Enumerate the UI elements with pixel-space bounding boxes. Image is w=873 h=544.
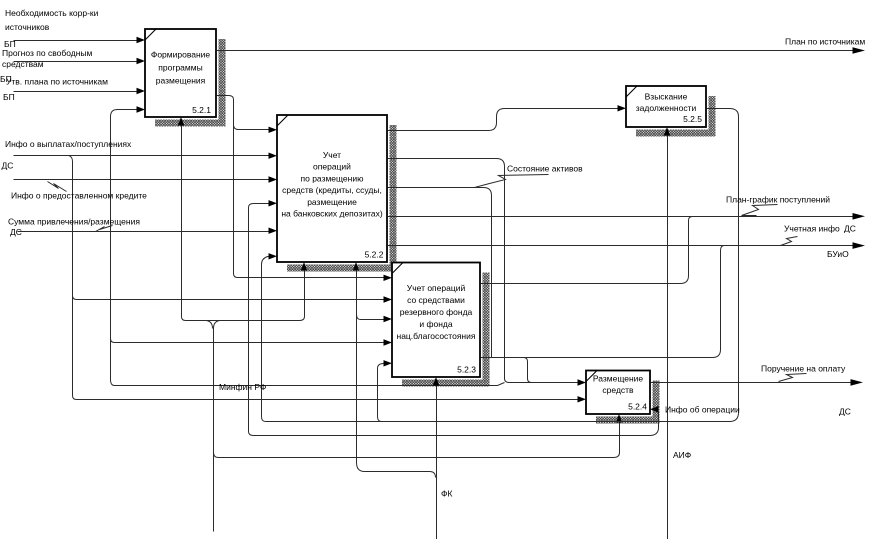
shadow of activity box 5.2.4 bbox=[596, 381, 660, 424]
svg-text:со средствами: со средствами bbox=[407, 295, 465, 305]
wire: U2 out3 (Состояние активов) -> down x=491.5 merge into y=357 line bbox=[388, 188, 492, 358]
activity box U3 "Учет операций со средствами резервного фонда" (5.2.3) bbox=[392, 263, 480, 378]
svg-text:Формирование: Формирование bbox=[151, 50, 211, 60]
svg-text:ДС: ДС bbox=[839, 407, 851, 417]
svg-text:средств (кредиты, ссуды,: средств (кредиты, ссуды, bbox=[282, 185, 382, 195]
activity box U4 "Размещение средств" (5.2.4) bbox=[586, 371, 650, 415]
svg-text:Поручение на оплату: Поручение на оплату bbox=[761, 364, 846, 374]
shadow of activity box 5.2.2 bbox=[287, 125, 397, 272]
wire: U5 output feedback -> right, down x=738, left y=421, up x=261 -> U2 in6 ; branch up x=377 -> U3 in5 bbox=[262, 109, 739, 422]
wire: АИФ bottom border -> U5 bottom input, vertical x=667 bbox=[667, 136, 669, 540]
svg-text:Прогноз по свободным: Прогноз по свободным bbox=[2, 48, 93, 58]
svg-text:размещение: размещение bbox=[307, 197, 357, 207]
branch x=72 down to U4 in2 line bbox=[69, 156, 578, 400]
svg-text:5.2.4: 5.2.4 bbox=[628, 402, 647, 412]
wire: U4 out -> Поручение на оплату (right border) bbox=[651, 382, 851, 384]
svg-text:Инфо об операции: Инфо об операции bbox=[665, 405, 740, 415]
svg-text:размещения: размещения bbox=[156, 76, 206, 86]
svg-text:Размещение: Размещение bbox=[593, 374, 644, 384]
svg-text:План-график поступлений: План-график поступлений bbox=[726, 195, 830, 205]
branch at (527,357) down to U4 in1 line bbox=[524, 358, 532, 383]
svg-text:БП: БП bbox=[3, 92, 15, 102]
wire: U3 out2 y=357 -> up x=720 merge into Учетная line; branch down x=527 to U4 in1 bbox=[481, 246, 725, 358]
activity box U1 "Формирование программы размещения" (5.2.1) bbox=[145, 29, 216, 117]
activity box U5 "Взыскание задолженности" (5.2.5) bbox=[626, 86, 706, 127]
wire: U2 out4 -> План-график поступлений (right border) bbox=[388, 216, 853, 218]
wire: Инфо о выплатах/поступлениях -> U2 in2, branch down at x=72 bbox=[14, 155, 269, 157]
svg-text:Учетная инфо: Учетная инфо bbox=[784, 224, 840, 234]
svg-text:Необходимость корр-ки: Необходимость корр-ки bbox=[5, 8, 99, 18]
svg-text:5.2.2: 5.2.2 bbox=[365, 250, 384, 260]
squiggle: Учетная инфо bbox=[781, 237, 798, 246]
shadow of activity box 5.2.5 bbox=[636, 96, 716, 137]
svg-text:нац.благосостояния: нац.благосостояния bbox=[397, 331, 476, 341]
svg-text:План по источникам: План по источникам bbox=[785, 37, 865, 47]
wire: riser x=248.5 -> U2 in4 ; lower end -> y=435.6 -> Инфо об операции into U4 right edge bbox=[249, 204, 659, 436]
branch at (233,129.5) -> U2 in1 bbox=[234, 125, 269, 130]
svg-text:ДС: ДС bbox=[844, 224, 856, 234]
svg-text:программы: программы bbox=[158, 63, 202, 73]
svg-text:средств: средств bbox=[602, 385, 634, 395]
branch at (377,421.3) -> U3 in5 bbox=[378, 364, 384, 422]
svg-text:источников: источников bbox=[5, 22, 50, 32]
wire: Инфо о предоставленном кредите -> U2 in3 bbox=[14, 179, 269, 181]
branch at (356,319) -> U3 in3 bbox=[357, 315, 384, 320]
svg-text:Учет операций: Учет операций bbox=[407, 283, 466, 293]
wire: Утв. плана по источникам -> U1 in3 bbox=[14, 91, 137, 93]
squiggle: Поручение на оплату bbox=[779, 374, 807, 382]
branch at (72,299.5) -> U3 in2 bbox=[73, 296, 384, 300]
activity box U2 "Учет операций по размещению средств" (5.2.2) bbox=[277, 115, 387, 262]
squiggle: План-график поступлений bbox=[742, 205, 778, 216]
wire: Необходимость корр-ки источников -> U1 in1 bbox=[14, 40, 137, 42]
svg-text:Минфин РФ: Минфин РФ bbox=[219, 382, 266, 392]
wire tree from bottom x=213: feeds U1 bottom, U2 bottom-1, U4 bottom bbox=[182, 126, 305, 321]
shadow of activity box 5.2.3 bbox=[402, 273, 490, 387]
svg-text:БУиО: БУиО bbox=[827, 249, 849, 259]
svg-text:ДС: ДС bbox=[2, 161, 14, 171]
svg-text:Инфо о предоставленном кредите: Инфо о предоставленном кредите bbox=[11, 191, 147, 201]
svg-text:ДС: ДС bbox=[10, 227, 22, 237]
wire: Сумма привлечения/размещения -> U2 in5 bbox=[18, 231, 269, 233]
wire: U1 out top -> План по источникам (right border) bbox=[217, 50, 853, 52]
svg-text:задолженности: задолженности bbox=[636, 103, 697, 113]
wire tree x=110 (Минфин РФ): up to U1 in4, branches to U3 in4 and U4 in1 bbox=[111, 110, 505, 386]
svg-text:Сумма привлечения/размещения: Сумма привлечения/размещения bbox=[8, 217, 140, 227]
svg-text:и фонда: и фонда bbox=[419, 319, 452, 329]
svg-text:5.2.3: 5.2.3 bbox=[457, 365, 476, 375]
svg-text:средствам: средствам bbox=[2, 59, 44, 69]
svg-text:Взыскание: Взыскание bbox=[645, 92, 688, 102]
svg-text:операций: операций bbox=[313, 162, 351, 172]
svg-text:ФК: ФК bbox=[441, 489, 452, 499]
squiggle: Сумма привлечения/размещения bbox=[96, 226, 113, 232]
wire: U3 out1 -> up x=688 merge into План-график line bbox=[481, 217, 693, 284]
wire: U2 out5 -> Учетная инфо (right border) bbox=[388, 245, 853, 247]
svg-text:5.2.5: 5.2.5 bbox=[683, 114, 702, 124]
wire: U2 out2 -> down x=504 -> merge into U4 in1 line bbox=[388, 159, 578, 383]
squiggle: Инфо о предоставленном кредите bbox=[48, 182, 67, 192]
svg-text:резервного фонда: резервного фонда bbox=[400, 307, 473, 317]
wire: U2 out1 -> U5 left input bbox=[388, 109, 618, 131]
wire: U1 right out -> down x=233 -> U2 in1 branch and U3 in1 bbox=[217, 96, 384, 278]
svg-text:Учет: Учет bbox=[323, 150, 341, 160]
svg-text:Состояние активов: Состояние активов bbox=[507, 164, 583, 174]
svg-text:АИФ: АИФ bbox=[673, 450, 691, 460]
branch at (213,457.3) -> U4 bottom arrow bbox=[214, 423, 620, 458]
wire: Прогноз по свободным средствам -> U1 in2 bbox=[14, 61, 137, 63]
svg-text:по размещению: по размещению bbox=[301, 173, 365, 183]
squiggle: Состояние активов bbox=[475, 175, 549, 188]
svg-text:Инфо о выплатах/поступлениях: Инфо о выплатах/поступлениях bbox=[5, 139, 132, 149]
wire: ФК bottom border up x=436 -> U3 bottom arrow; branch west y=471 -> up x=356 -> U2 bottom-2; branch at (356,319)->U3 in3 bbox=[436, 386, 438, 540]
branch at (110,342.5) -> U3 in4 bbox=[111, 339, 384, 343]
svg-text:Утв. плана по источникам: Утв. плана по источникам bbox=[6, 77, 108, 87]
tee branch at (213,320.6) down to bottom border bbox=[207, 321, 220, 532]
svg-text:на банковских депозитах): на банковских депозитах) bbox=[281, 209, 383, 219]
shadow of activity box 5.2.1 bbox=[155, 39, 226, 127]
svg-text:5.2.1: 5.2.1 bbox=[192, 105, 211, 115]
